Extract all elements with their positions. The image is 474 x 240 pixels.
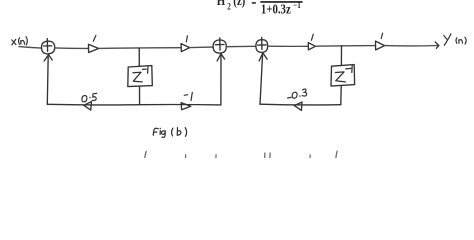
gain G5 (triangle, 0.5, points left)	[84, 102, 92, 111]
arrowhead into A2	[217, 54, 225, 61]
caption Fig (b)	[153, 128, 186, 138]
adder A1 (summing junction)	[41, 41, 54, 54]
label z^-1 in D2	[335, 66, 352, 82]
arrowhead into A1	[44, 55, 52, 61]
wire: D2 output down to right feedback bus	[340, 86, 342, 105]
svg-text:1+0.3z: 1+0.3z	[261, 1, 291, 16]
wire: A2 to adder A3	[226, 45, 256, 47]
svg-text:H: H	[217, 0, 226, 9]
wire: G2 to adder A2	[190, 46, 214, 49]
adder A2	[213, 40, 226, 53]
gain G1 (triangle, gain 1)	[89, 44, 99, 52]
hand-drawn diagram	[12, 33, 466, 158]
label 1 above G4	[381, 33, 382, 38]
output arrowhead	[435, 42, 439, 48]
label x(n)	[12, 37, 28, 45]
wire: G1 to gain G2 (through node N1)	[99, 47, 181, 50]
wire: D1 output down to feedback bus	[139, 87, 141, 105]
wire: A3 to gain G3	[268, 45, 308, 47]
wire: input from x(n) to adder A1	[19, 47, 42, 49]
label 1 above G2	[186, 36, 187, 42]
label 1 above G3	[311, 34, 313, 40]
wire: A1 to gain G1	[55, 47, 89, 50]
label -1	[184, 92, 192, 100]
label 0.5	[82, 93, 97, 102]
node N2 branch to delay D2	[340, 46, 342, 65]
wire: riser into A1	[46, 55, 49, 104]
gain G7 (triangle, -0.3, points left)	[294, 102, 302, 110]
wire: right feedback bus (A3 riser to D2)	[260, 103, 341, 106]
wire: G3 to gain G4 (through node N2)	[315, 45, 375, 48]
printed transfer function H2(z), top-cropped	[217, 0, 303, 17]
gain G4 (triangle, gain 1)	[376, 41, 385, 50]
gain G3 (triangle, gain 1)	[308, 43, 315, 50]
adder A3	[256, 40, 268, 53]
label 1 above G1	[93, 35, 96, 41]
svg-text:(z): (z)	[233, 0, 245, 8]
arrowhead into A3	[259, 53, 267, 61]
label -0.3	[288, 89, 307, 98]
label z^-1 in D1	[133, 67, 148, 82]
wire: riser into A2	[220, 55, 222, 105]
svg-text:−1: −1	[293, 0, 301, 10]
gain G2 (triangle, gain 1)	[181, 44, 190, 52]
label Y(n)	[444, 34, 466, 46]
delay D2 (z^-1 box)	[331, 65, 355, 87]
delay D1 (z^-1 box)	[128, 66, 153, 87]
wire: left feedback bus (A1 riser to A2 riser)	[47, 103, 221, 106]
gain G6 (triangle, -1, points right)	[181, 103, 191, 110]
wire: G4 to output arrow	[385, 45, 439, 47]
wire: riser into A3	[260, 54, 263, 104]
cropped next-line text at bottom edge	[145, 151, 337, 158]
node N1 branch to delay D1	[138, 48, 140, 66]
svg-text:2: 2	[227, 2, 231, 12]
